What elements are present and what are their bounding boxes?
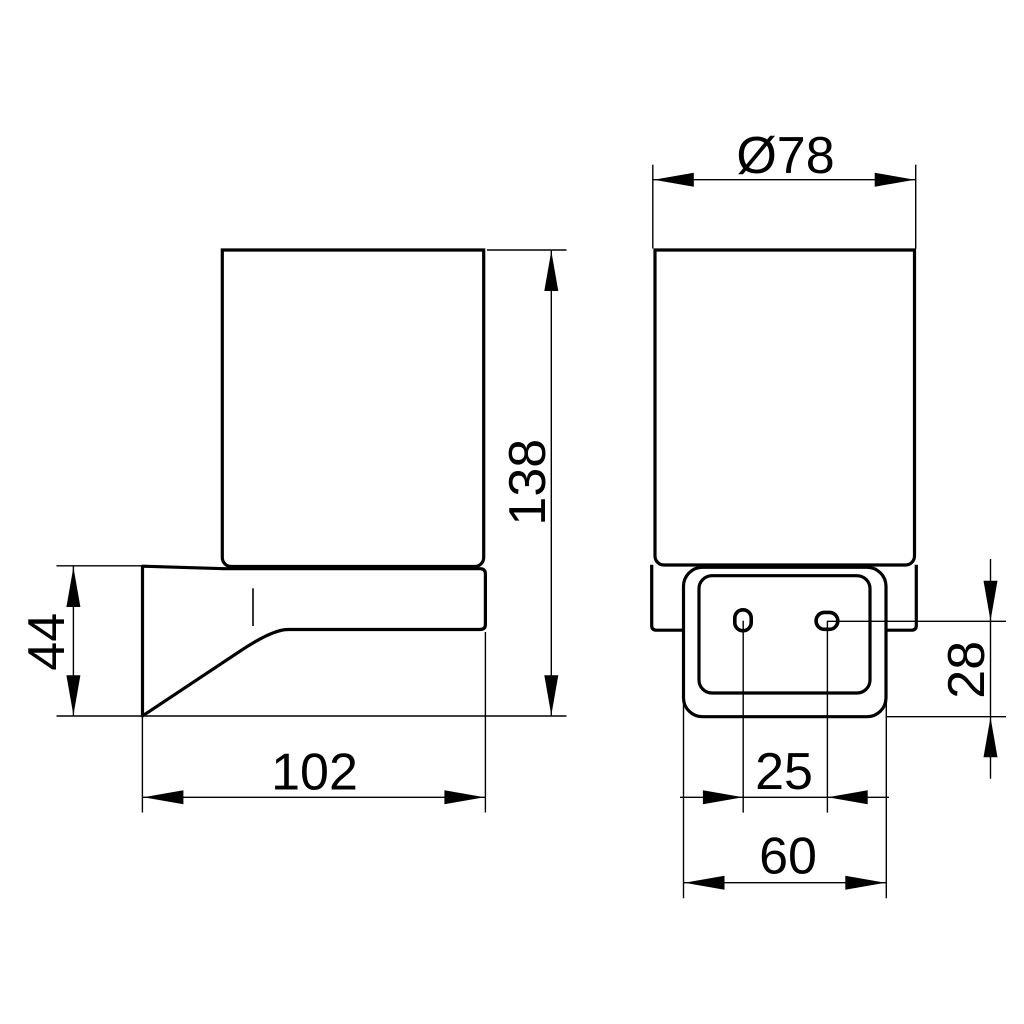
dim 102: left arrow: [143, 790, 183, 804]
dim 28: dimension line: [990, 559, 992, 779]
wall bracket side view (left): [143, 566, 486, 716]
dim 102: left extension line: [141, 717, 143, 813]
hole centre line: right hole horizontal (28 extension): [827, 620, 1006, 622]
hole centre line: left hole vertical: [742, 621, 744, 813]
dim 102: right arrow: [444, 790, 484, 804]
dim 102: dimension line: [143, 796, 485, 798]
svg-text:Ø78: Ø78: [736, 127, 834, 185]
hole centre line: right hole vertical: [826, 621, 828, 813]
svg-text:28: 28: [938, 641, 996, 699]
dim 138: bottom arrow: [544, 675, 558, 715]
svg-text:102: 102: [271, 743, 358, 801]
dim 28: upper arrow (pointing down): [984, 581, 998, 621]
dim 60: left arrow: [685, 876, 725, 890]
svg-text:25: 25: [755, 743, 813, 801]
dim 44: top extension line: [57, 565, 142, 567]
dim 44: bottom extension line (long shared baseline): [57, 715, 567, 717]
mounting plate outer (right view): [684, 567, 887, 716]
mounting plate inner face: [699, 576, 870, 693]
bracket seam tick (left view): [252, 588, 254, 626]
dim 44: bottom arrow: [66, 675, 80, 715]
dim 25: right arrow (outside, pointing left): [828, 790, 868, 804]
svg-text:44: 44: [18, 613, 76, 671]
svg-text:138: 138: [499, 439, 557, 526]
glass tumbler front view (right): [655, 250, 915, 565]
dim 138: dimension line: [550, 250, 552, 715]
dim 102: right extension line: [484, 632, 486, 813]
dim 60: right arrow: [845, 876, 885, 890]
dim 44: top arrow: [66, 567, 80, 607]
dim Ø78: right extension line: [915, 165, 917, 249]
dim 60: right extension line: [885, 698, 887, 899]
right screw hole: [816, 612, 838, 629]
dim 138: top extension line: [487, 249, 567, 251]
dim Ø78: left arrow: [654, 173, 694, 187]
dim Ø78: right arrow: [875, 173, 915, 187]
dim Ø78: dimension line: [653, 179, 915, 181]
dim 138: top arrow: [544, 251, 558, 291]
glass tumbler side view (left): [222, 250, 483, 567]
dim 28: lower arrow (pointing up): [984, 717, 998, 757]
svg-text:60: 60: [759, 828, 817, 886]
dim 60: dimension line: [684, 882, 886, 884]
dim 25: dimension line: [680, 796, 889, 798]
left screw hole: [735, 610, 751, 631]
dim 60: left extension line: [683, 698, 685, 899]
dim 25: left arrow (outside, pointing right): [703, 790, 743, 804]
holder arm behind plate (right view): [652, 565, 917, 630]
dim 44: dimension line: [72, 566, 74, 715]
dim Ø78: left extension line: [652, 165, 654, 249]
dim 28: bottom extension line: [886, 716, 1007, 718]
